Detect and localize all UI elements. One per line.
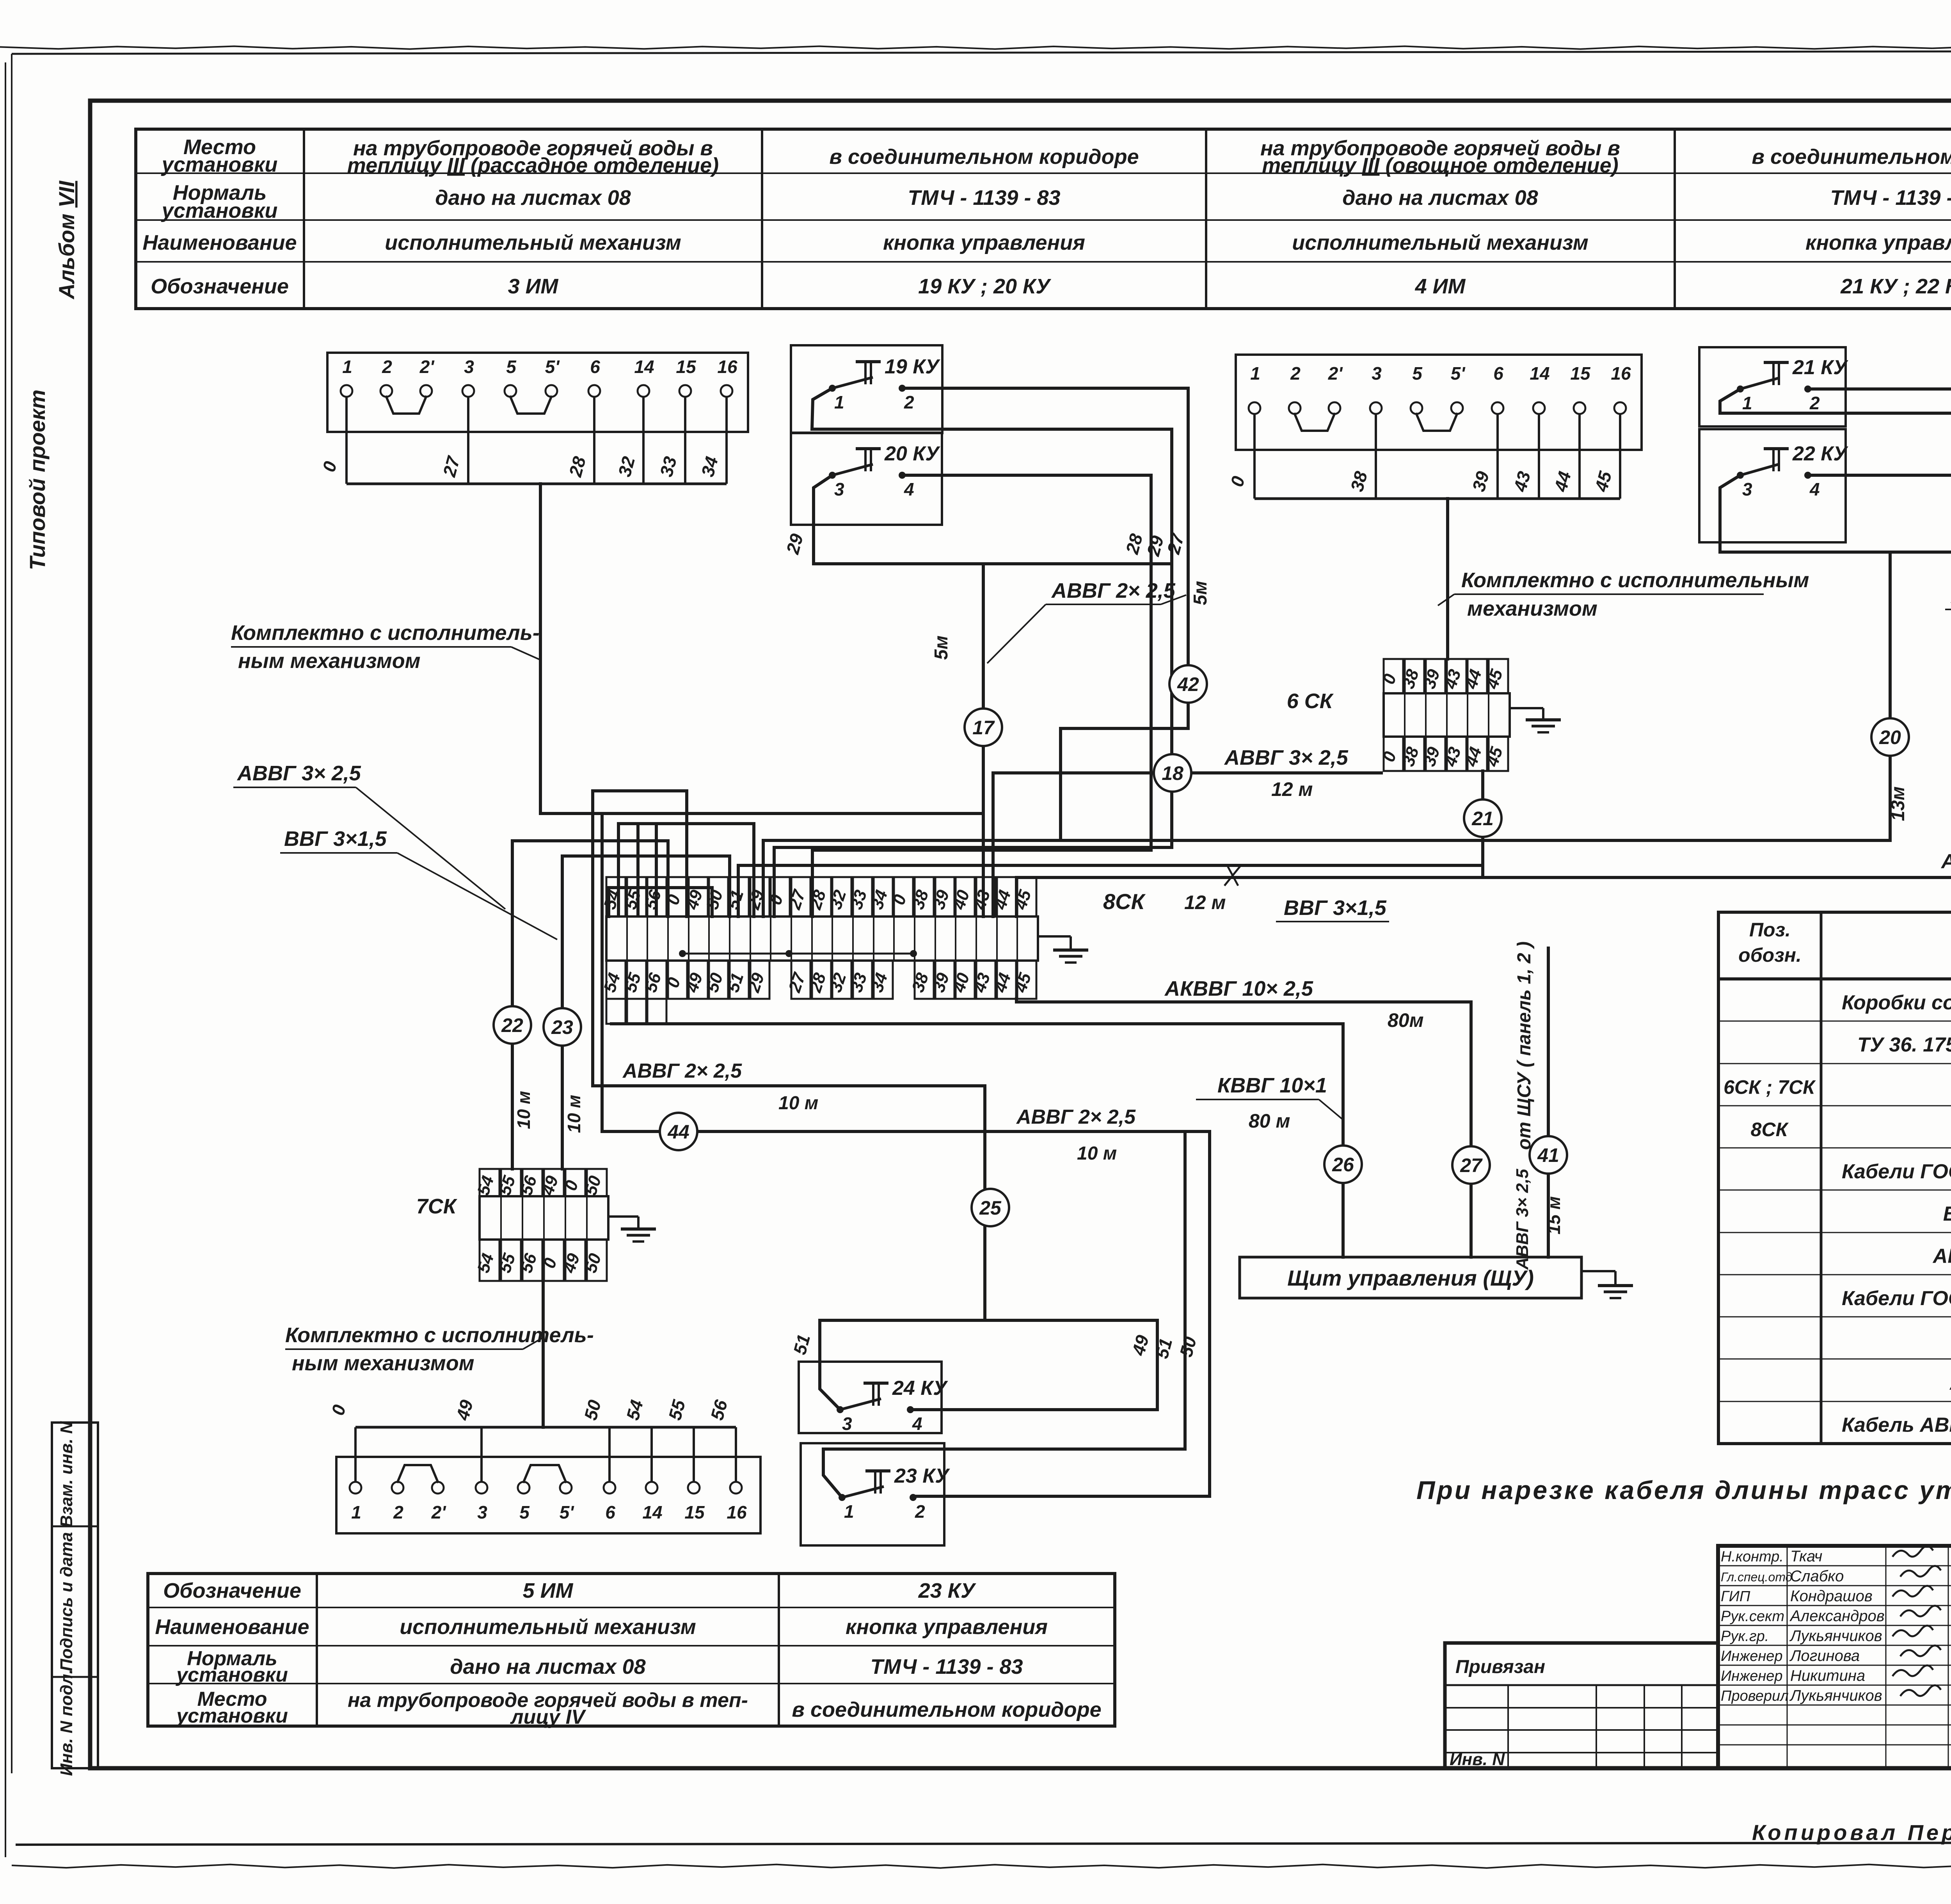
svg-text:установки: установки — [161, 153, 278, 176]
pushbutton 19КУ — [791, 345, 942, 433]
svg-text:При нарезке кабеля длины тр: При нарезке кабеля длины трасс уточнить … — [1416, 1476, 1951, 1504]
wire 51 to 23КУ contact1 — [823, 1131, 1185, 1497]
pushbutton 22КУ — [1699, 429, 1848, 542]
svg-text:1: 1 — [351, 1502, 361, 1522]
wire labels 51 49 51 50 — [789, 1332, 1201, 1361]
svg-text:41: 41 — [1537, 1144, 1559, 1166]
svg-text:Щит управления (ЩУ): Щит управления (ЩУ) — [1287, 1266, 1534, 1290]
ground at 8СК — [1038, 936, 1088, 963]
svg-text:20 КУ: 20 КУ — [884, 442, 940, 465]
svg-text:теплицу III (рассадное отделе: теплицу III (рассадное отделение) — [347, 154, 719, 177]
svg-text:25: 25 — [979, 1197, 1002, 1219]
cable node 20 — [1871, 718, 1909, 756]
svg-text:КВВГ 10×1: КВВГ 10×1 — [1217, 1074, 1327, 1097]
svg-text:4: 4 — [904, 479, 914, 499]
svg-text:Наименование: Наименование — [155, 1615, 309, 1639]
svg-text:в соединительном коридоре: в соединительном коридоре — [829, 145, 1139, 169]
КВВГ 10х1 wire to node 26 — [611, 1024, 1343, 1257]
svg-text:установки: установки — [175, 1664, 288, 1686]
svg-text:Слабко: Слабко — [1790, 1568, 1844, 1585]
svg-text:Комплектно с исполнитель-: Комплектно с исполнитель- — [285, 1323, 594, 1347]
svg-text:5': 5' — [1451, 363, 1466, 384]
svg-text:80м: 80м — [1388, 1009, 1424, 1031]
svg-text:6СК ; 7СК: 6СК ; 7СК — [1724, 1076, 1816, 1098]
Копировал Перелыгина — [1752, 1820, 1951, 1845]
svg-text:7СК: 7СК — [416, 1195, 458, 1218]
svg-text:Гл.спец.отд: Гл.спец.отд — [1721, 1570, 1792, 1584]
svg-text:3: 3 — [1742, 479, 1752, 499]
svg-text:3: 3 — [1372, 363, 1382, 384]
svg-text:15 м: 15 м — [1544, 1196, 1564, 1234]
svg-text:23: 23 — [551, 1016, 573, 1038]
svg-text:15: 15 — [1570, 363, 1591, 384]
svg-text:2: 2 — [1290, 363, 1301, 384]
svg-text:1: 1 — [1742, 393, 1752, 413]
label АКВВГ 10x2,5 80м — [1164, 977, 1424, 1031]
pushbutton 21КУ — [1699, 347, 1848, 426]
svg-text:АКВВГ 10× 2,5: АКВВГ 10× 2,5 — [1164, 977, 1313, 1000]
svg-text:6 СК: 6 СК — [1287, 689, 1334, 713]
svg-text:Кабели ГОСТ 16442-80: Кабели ГОСТ 16442-80 — [1842, 1160, 1951, 1183]
junction box 7СК — [416, 1169, 608, 1281]
svg-text:1: 1 — [834, 392, 844, 412]
svg-text:ТУ 36. 1753 - 75: ТУ 36. 1753 - 75 — [1857, 1034, 1951, 1056]
svg-text:22: 22 — [501, 1014, 523, 1036]
parts list table — [1718, 912, 1951, 1444]
svg-text:3: 3 — [842, 1414, 852, 1434]
svg-text:2: 2 — [1809, 393, 1820, 413]
svg-text:19 КУ: 19 КУ — [885, 355, 940, 378]
left inventory boxes (Взам.инв.N / Подпись и дата / Инв.N подл.) — [52, 1421, 98, 1776]
label АВВГ 2x2,5 (21КУ cables) — [1945, 584, 1951, 663]
svg-text:3: 3 — [477, 1502, 487, 1522]
svg-text:Логинова: Логинова — [1789, 1647, 1860, 1664]
label АВВГ 2x2,5 13 м (node 43 wire) — [1940, 850, 1951, 902]
svg-text:5м: 5м — [1190, 581, 1211, 605]
svg-text:АВВГ 2× 2,5: АВВГ 2× 2,5 — [1051, 579, 1176, 602]
svg-text:5': 5' — [545, 357, 560, 377]
svg-text:ТМЧ - 1139 - 83: ТМЧ - 1139 - 83 — [908, 186, 1060, 210]
svg-text:Проверил: Проверил — [1721, 1688, 1789, 1704]
svg-text:кнопка управления: кнопка управления — [883, 231, 1085, 254]
svg-text:2: 2 — [915, 1501, 925, 1522]
bundle bridge wire — [609, 888, 712, 916]
wire from ЩСУ to node 41 — [1547, 948, 1550, 1257]
svg-text:АВВГ 3× 2,5: АВВГ 3× 2,5 — [1224, 746, 1349, 769]
svg-text:21 КУ: 21 КУ — [1792, 356, 1848, 379]
wire: node 17 drop — [982, 564, 985, 916]
svg-text:АВВГ 2× 2,5: АВВГ 2× 2,5 — [1940, 850, 1951, 873]
svg-text:Наименование: Наименование — [142, 231, 297, 254]
svg-text:2: 2 — [393, 1502, 403, 1522]
svg-text:ТМЧ - 1139 - 83: ТМЧ - 1139 - 83 — [1830, 186, 1951, 210]
label Комплектно с исполнительным механизмом (middle) — [1438, 568, 1809, 620]
svg-text:Обозначение: Обозначение — [163, 1579, 301, 1602]
svg-text:Альбом VII: Альбом VII — [54, 180, 79, 300]
svg-text:АВВГ 3× 2,5: АВВГ 3× 2,5 — [236, 762, 361, 785]
svg-text:5': 5' — [560, 1502, 575, 1522]
svg-text:21: 21 — [1471, 808, 1494, 829]
label ВВГ 3x1,5 (wire 23) — [280, 827, 557, 940]
svg-text:от ЩСУ ( панель 1, 2 ): от ЩСУ ( панель 1, 2 ) — [1514, 941, 1535, 1150]
svg-text:дано на листах 08: дано на листах 08 — [435, 186, 631, 210]
wire: 4ИМ cable drop — [1446, 499, 1449, 659]
wire: 7СК to 5ИМ drop — [542, 1281, 545, 1427]
svg-text:15: 15 — [684, 1502, 705, 1522]
wire: 21КУ contact1 lead 40 — [1720, 389, 1951, 552]
svg-text:ВВГ 3×1,5 - 0,66: ВВГ 3×1,5 - 0,66 — [1943, 1202, 1951, 1225]
svg-text:5: 5 — [506, 357, 517, 377]
svg-text:Поз.: Поз. — [1749, 919, 1791, 941]
svg-text:5: 5 — [519, 1502, 530, 1522]
svg-text:Александров: Александров — [1789, 1607, 1885, 1625]
svg-text:Типовой проект: Типовой проект — [25, 389, 50, 570]
svg-text:Рук.гр.: Рук.гр. — [1721, 1628, 1769, 1645]
svg-text:12 м: 12 м — [1184, 892, 1226, 913]
junction box 6СК — [1287, 659, 1510, 771]
svg-text:4: 4 — [912, 1414, 922, 1434]
label АВВГ 3x2,5 (wire 22) — [233, 762, 505, 909]
terminal block 3ИМ — [318, 353, 748, 484]
svg-text:1: 1 — [342, 357, 352, 377]
sheet top edge wavy line — [0, 46, 1951, 49]
label АВВГ 2x2,5 10м (line B) — [1016, 1106, 1136, 1164]
svg-text:Никитина: Никитина — [1790, 1667, 1865, 1684]
svg-text:4: 4 — [1809, 479, 1820, 499]
svg-text:8СК: 8СК — [1751, 1119, 1789, 1140]
svg-text:Комплектно с исполнительным: Комплектно с исполнительным — [1461, 568, 1809, 592]
svg-text:10 м: 10 м — [1077, 1143, 1117, 1164]
cable node 25 — [972, 1189, 1009, 1226]
svg-text:2: 2 — [382, 357, 392, 377]
svg-text:18: 18 — [1162, 762, 1183, 784]
svg-text:4 ИМ: 4 ИМ — [1415, 275, 1466, 298]
svg-text:Лукьянчиков: Лукьянчиков — [1789, 1627, 1882, 1645]
cable node 42 — [1169, 665, 1207, 703]
svg-text:14: 14 — [1530, 363, 1549, 384]
label Комплектно с исполнительным механизмом (bottom left) — [285, 1323, 594, 1375]
svg-text:5: 5 — [1412, 363, 1423, 384]
wire: 19КУ contact2 to node 27 — [902, 388, 1188, 840]
pushbutton 20КУ — [791, 433, 942, 525]
АВВГ 2x2,5 10м wire A to node 25 and 24КУ — [593, 1086, 1157, 1410]
sheet left thin borders — [5, 54, 12, 1857]
svg-text:Кабели ГОСТ 1508 - 78: Кабели ГОСТ 1508 - 78 — [1842, 1287, 1951, 1310]
wire: 20КУ contact3 lead 29 — [814, 475, 1172, 564]
Привязан box — [1445, 1643, 1718, 1769]
cable node 23 — [544, 1008, 581, 1046]
svg-text:Ткач: Ткач — [1790, 1548, 1822, 1565]
svg-text:ТМЧ - 1139 - 83: ТМЧ - 1139 - 83 — [870, 1655, 1023, 1678]
cable node 18 — [1154, 754, 1191, 792]
svg-text:16: 16 — [1611, 363, 1631, 384]
label 13м rotated (node 20 wire) — [1888, 787, 1908, 821]
pushbutton 23КУ — [801, 1443, 950, 1545]
svg-text:19 КУ ; 20 КУ: 19 КУ ; 20 КУ — [918, 275, 1051, 298]
wire: 20КУ contact4 to node 28 — [812, 475, 1151, 916]
svg-text:Привязан: Привязан — [1455, 1657, 1545, 1677]
control panel Щит управления (ЩУ) — [1240, 1257, 1581, 1298]
svg-text:5м: 5м — [931, 636, 952, 660]
wire: 22КУ contact3 lead bottom — [1720, 475, 1951, 552]
label АВВГ 2x2,5 10м (line A) — [622, 1060, 818, 1114]
svg-text:ным механизмом: ным механизмом — [238, 649, 421, 673]
svg-text:3: 3 — [464, 357, 474, 377]
svg-text:механизмом: механизмом — [1467, 597, 1597, 620]
note: При нарезке кабеля — [1416, 1476, 1951, 1504]
cable node 17 — [965, 709, 1002, 746]
title block stamp — [1718, 1546, 1951, 1770]
svg-text:кнопка управления: кнопка управления — [846, 1615, 1048, 1639]
svg-text:АВВГ 2× 2,5: АВВГ 2× 2,5 — [622, 1060, 742, 1082]
svg-text:АВВГ 2× 2,5: АВВГ 2× 2,5 — [1016, 1106, 1136, 1128]
rotated 5м labels left — [931, 581, 1211, 660]
label Комплектно с исполнительным механизмом (top left) — [231, 621, 540, 673]
cable node 22 — [494, 1006, 531, 1044]
svg-text:дано на листах 08: дано на листах 08 — [1342, 186, 1538, 210]
svg-text:исполнительный механизм: исполнительный механизм — [385, 231, 681, 254]
ground at ЩУ — [1581, 1271, 1633, 1298]
long wire H2154 (node 39 to 8СК) — [763, 840, 1890, 916]
svg-text:5 ИМ: 5 ИМ — [523, 1579, 574, 1602]
svg-text:ным механизмом: ным механизмом — [292, 1352, 474, 1375]
svg-text:теплицу III (овощное отделение: теплицу III (овощное отделение) — [1262, 154, 1618, 177]
svg-text:20: 20 — [1879, 726, 1901, 748]
svg-text:кнопка управления: кнопка управления — [1805, 231, 1951, 254]
svg-text:установки: установки — [161, 199, 278, 222]
svg-text:АВВГ 3× 2,5 - 0,66: АВВГ 3× 2,5 - 0,66 — [1932, 1245, 1951, 1268]
svg-text:21 КУ ; 22 КУ: 21 КУ ; 22 КУ — [1840, 275, 1951, 298]
cable node 21 — [1464, 799, 1501, 837]
svg-text:6: 6 — [1493, 363, 1503, 384]
svg-text:42: 42 — [1177, 673, 1199, 695]
svg-text:Лукьянчиков: Лукьянчиков — [1789, 1687, 1882, 1704]
top specification table — [136, 129, 1951, 309]
wire 51 to 24КУ contact3 — [820, 1320, 985, 1410]
svg-text:2': 2' — [1328, 363, 1343, 384]
svg-text:44: 44 — [667, 1121, 689, 1143]
svg-text:Взам. инв. N: Взам. инв. N — [57, 1421, 76, 1527]
sheet top thin border — [12, 51, 1951, 54]
svg-text:12 м: 12 м — [1271, 778, 1313, 800]
svg-text:дано на листах 08: дано на листах 08 — [450, 1655, 645, 1678]
svg-text:в соединительном коридоре: в соединительном коридоре — [1752, 145, 1951, 169]
long wire H2249 (node 43 to 8СК) 13м — [1016, 877, 1951, 916]
svg-text:16: 16 — [727, 1502, 747, 1522]
svg-text:1: 1 — [1250, 363, 1260, 384]
terminal block 5ИМ — [327, 1397, 760, 1533]
svg-text:ВВГ 3×1,5: ВВГ 3×1,5 — [284, 827, 387, 851]
bundle wires above 8СК — [593, 791, 687, 1086]
junction box 8СК — [600, 877, 1146, 1024]
rotated labels от ЩСУ (панель 1,2) и АВВГ 3x2,5 15м — [1513, 941, 1564, 1270]
svg-text:в соединительном коридоре: в соединительном коридоре — [792, 1698, 1101, 1721]
svg-text:80 м: 80 м — [1249, 1110, 1290, 1132]
АВВГ 2x2,5 10м wire B через 44 to 23КУ — [602, 1131, 1210, 1496]
svg-text:Инв. N подл.: Инв. N подл. — [57, 1669, 76, 1776]
svg-text:Кабель АВВГ 2× 2,5 - 0,66 ГОСТ: Кабель АВВГ 2× 2,5 - 0,66 ГОСТ 16442-80 — [1842, 1414, 1951, 1437]
svg-text:23 КУ: 23 КУ — [918, 1579, 976, 1602]
terminal block 4ИМ — [1226, 355, 1642, 499]
svg-text:26: 26 — [1332, 1154, 1354, 1176]
wire 23 vertical (ВВГ 3x1,5 10м) — [562, 856, 730, 1169]
svg-text:2: 2 — [904, 392, 914, 412]
wire: 21КУ contact2 to node 38 — [1808, 389, 1951, 877]
wire: 22КУ contact4 to node 39 — [1808, 475, 1951, 552]
pushbutton 24КУ — [799, 1362, 948, 1434]
left margin label: Альбом VII — [54, 180, 79, 300]
svg-text:6: 6 — [605, 1502, 615, 1522]
svg-text:Рук.сект: Рук.сект — [1721, 1608, 1784, 1625]
svg-text:Обозначение: Обозначение — [151, 275, 289, 298]
svg-text:исполнительный механизм: исполнительный механизм — [400, 1615, 696, 1639]
label АВВГ 2x2,5 (19КУ cables) — [987, 579, 1186, 663]
svg-text:13м: 13м — [1888, 787, 1908, 821]
svg-text:24 КУ: 24 КУ — [892, 1377, 948, 1400]
wire: node 20 drop 13м — [1889, 552, 1892, 840]
svg-text:22 КУ: 22 КУ — [1792, 442, 1848, 465]
sheet bottom wavy lines — [12, 1842, 1951, 1868]
svg-text:1: 1 — [844, 1501, 854, 1522]
svg-text:10 м: 10 м — [778, 1093, 818, 1114]
svg-text:3 ИМ: 3 ИМ — [508, 275, 559, 298]
ground at 7СК — [608, 1217, 656, 1242]
wire 22 vertical (АВВГ 3x2,5 10м) — [512, 841, 668, 1169]
svg-text:27: 27 — [1460, 1154, 1483, 1176]
svg-text:6: 6 — [590, 357, 600, 377]
АКВВГ 10х2,5 wire to node 27 — [1016, 999, 1471, 1257]
break mark on 13м wire — [1224, 865, 1241, 886]
label 12м / ВВГ 3x1,5 (13м wire) — [1184, 892, 1389, 922]
svg-text:10 м: 10 м — [514, 1091, 534, 1129]
svg-text:3: 3 — [834, 479, 844, 499]
svg-text:17: 17 — [972, 717, 995, 739]
cable node 26 — [1324, 1146, 1362, 1183]
svg-text:Инв. N: Инв. N — [1450, 1750, 1505, 1769]
wire label 29 28 29 27 — [782, 531, 1188, 558]
svg-text:Инженер: Инженер — [1721, 1668, 1783, 1684]
svg-text:Кондрашов: Кондрашов — [1790, 1588, 1873, 1605]
long wire H2218 (node 40 to 8СК) — [738, 865, 1483, 916]
svg-text:лицу IV: лицу IV — [510, 1706, 586, 1728]
svg-text:исполнительный механизм: исполнительный механизм — [1292, 231, 1589, 254]
svg-text:АВВГ 3× 2,5: АВВГ 3× 2,5 — [1513, 1169, 1532, 1270]
svg-text:установки: установки — [175, 1705, 288, 1727]
svg-text:Копировал Перелыгина: Копировал Перелыгина — [1752, 1820, 1951, 1845]
cable node 27 — [1452, 1146, 1490, 1184]
svg-text:15: 15 — [676, 357, 697, 377]
svg-text:14: 14 — [634, 357, 654, 377]
svg-text:Н.контр.: Н.контр. — [1721, 1549, 1784, 1565]
cable node 41 — [1530, 1136, 1567, 1174]
svg-text:обозн.: обозн. — [1738, 944, 1802, 966]
svg-text:ГИП: ГИП — [1721, 1588, 1750, 1605]
svg-text:Комплектно с исполнитель-: Комплектно с исполнитель- — [231, 621, 540, 645]
svg-text:16: 16 — [717, 357, 737, 377]
svg-text:23 КУ: 23 КУ — [894, 1465, 950, 1487]
label АВВГ 3x2,5 12м (node 18 wire) — [1224, 746, 1349, 800]
svg-text:8СК: 8СК — [1103, 889, 1146, 914]
svg-text:ВВГ 3×1,5: ВВГ 3×1,5 — [1284, 896, 1387, 920]
wire: 6СК to node 18 line — [993, 773, 1381, 916]
cable node 44 — [660, 1113, 697, 1150]
ground at 6СК — [1510, 708, 1561, 732]
svg-text:2': 2' — [431, 1502, 447, 1522]
wire: 3ИМ cable drop — [540, 484, 983, 813]
wire: 19КУ contact1 lead — [774, 388, 1172, 916]
rotated 10м labels — [514, 1091, 584, 1133]
left margin label: Типовой проект — [25, 389, 50, 570]
label КВВГ 10x1 80м — [1196, 1074, 1343, 1132]
svg-text:2': 2' — [419, 357, 435, 377]
wire: 6СК tag45 to node 21 — [1481, 771, 1484, 877]
svg-text:10 м: 10 м — [564, 1095, 584, 1133]
svg-text:Коробки соединительные: Коробки соединительные — [1842, 991, 1951, 1014]
svg-text:Подпись и дата: Подпись и дата — [57, 1532, 76, 1671]
bottom specification table — [148, 1574, 1115, 1728]
svg-text:14: 14 — [642, 1502, 662, 1522]
svg-text:Инженер: Инженер — [1721, 1648, 1783, 1664]
